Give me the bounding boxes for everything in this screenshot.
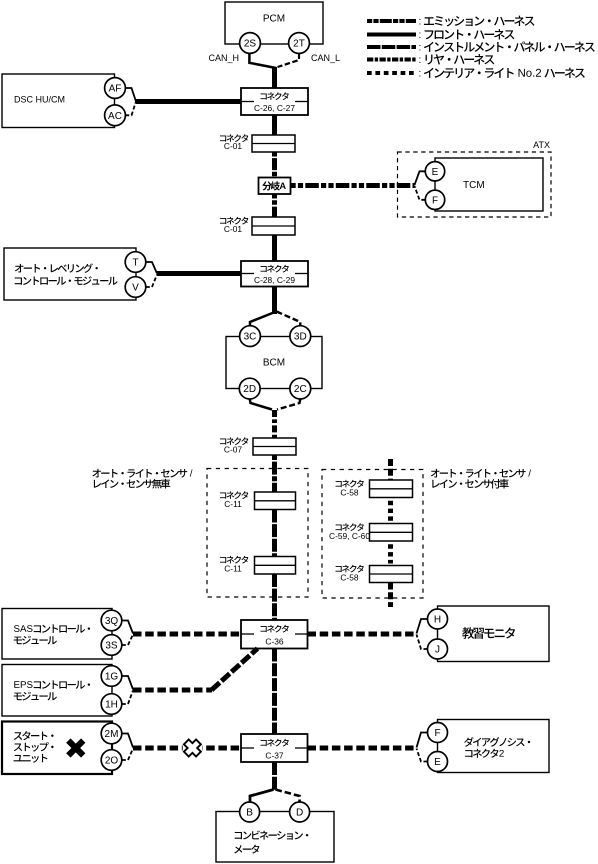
terminal T (125, 252, 146, 273)
combination meter box (216, 812, 334, 863)
auto leveling control module box (4, 248, 136, 300)
terminal 2C (290, 378, 311, 399)
svg-text:J: J (435, 645, 440, 656)
terminal B (240, 802, 260, 822)
connector C-37 (241, 734, 308, 762)
svg-text::: : (419, 43, 422, 54)
svg-text:DSC HU/CM: DSC HU/CM (14, 95, 65, 105)
terminal 1G (101, 666, 122, 687)
svg-text:C-58: C-58 (340, 487, 358, 497)
wire start-stop to C-37 (dashed) (133, 746, 241, 751)
terminal AC (105, 105, 126, 126)
svg-text:1H: 1H (105, 700, 118, 711)
wire segment below C-58 (dashed) (388, 583, 393, 608)
wire branch A to TCM (dashed) (291, 183, 415, 188)
svg-text:C-59, C-60: C-59, C-60 (329, 531, 370, 541)
svg-text:2D: 2D (243, 384, 256, 395)
wire trunk C-36 to C-37 (dashed) (272, 649, 277, 735)
wire from 2S (CAN_H, solid) (249, 54, 276, 69)
legend swatch: リヤ・ハーネス (367, 58, 416, 62)
legend swatch: エミッション・ハーネス (367, 19, 416, 23)
connector C-59, C-60 (370, 524, 413, 542)
wire from T (solid) (146, 262, 157, 274)
wire trunk C-37 down (dashed) (272, 762, 277, 790)
terminal V (125, 277, 146, 298)
terminal F (425, 190, 444, 209)
wire to B (solid) (250, 790, 274, 803)
svg-text:2O: 2O (105, 756, 119, 767)
svg-text:C-58: C-58 (340, 572, 358, 582)
svg-text:C-37: C-37 (265, 751, 283, 761)
wire trunk C-07 to C-11 (instrument panel harness) (272, 455, 277, 492)
wire C-58 to C-59 (interior light No.2, dotted) (388, 501, 393, 521)
connector C-26, C-27 (241, 88, 308, 115)
wire from AC (dashed) (125, 102, 136, 116)
svg-text:E: E (432, 167, 439, 178)
SAS control module box (2, 609, 112, 660)
training monitor box (438, 606, 550, 662)
wire from V (dashed) (146, 275, 157, 288)
svg-text::: : (419, 30, 422, 41)
svg-text:C-36: C-36 (265, 637, 283, 647)
legend swatch: フロント・ハーネス (367, 33, 416, 37)
connector C-11 lower (255, 557, 296, 575)
dashed enclosure: with auto light / rain sensor (322, 470, 423, 599)
label with-sensor variant (431, 469, 531, 478)
label without-sensor variant (92, 469, 192, 478)
terminal 1H (101, 694, 122, 715)
wire to D (dashed) (276, 790, 300, 803)
wire trunk C-28 to BCM (front harness) (272, 287, 277, 315)
wire trunk C-01 to C-28 (front harness) (272, 235, 277, 261)
wire leveling module to C-28 (front harness) (157, 271, 241, 276)
terminal E (428, 752, 448, 772)
wire from 1G (solid) (122, 676, 133, 690)
wire to 3D (dashed) (277, 312, 301, 327)
svg-text:B: B (246, 808, 253, 819)
wire from 2C (dashed) (277, 399, 300, 410)
BCM box (226, 337, 322, 389)
connector C-01 upper (252, 135, 295, 152)
junction box 分岐A (259, 178, 291, 195)
svg-text:F: F (432, 195, 438, 206)
svg-text:AC: AC (108, 111, 122, 122)
svg-text:F: F (434, 728, 440, 739)
connector C-36 (241, 620, 308, 649)
TCM box (435, 158, 543, 211)
terminal 2S (240, 33, 261, 54)
X mark on wire (cut, outlined) (183, 739, 202, 757)
DSC HU/CM box (2, 74, 115, 128)
dashed enclosure: without auto light / rain sensor (207, 469, 308, 598)
terminal D (290, 802, 310, 822)
connector C-28, C-29 (241, 261, 308, 287)
svg-text:ATX: ATX (533, 140, 550, 150)
svg-text:H: H (434, 615, 441, 626)
wire to F (solid) (417, 733, 428, 748)
svg-text:BCM: BCM (263, 358, 285, 369)
svg-text:3Q: 3Q (105, 616, 119, 627)
start stop unit box (2, 722, 112, 775)
terminal 3S (101, 635, 122, 656)
svg-text:2C: 2C (294, 384, 307, 395)
PCM box (225, 2, 323, 44)
wire EPS to C-36 horizontal (dashed) (133, 688, 212, 693)
wire trunk PCM to connector C-26 (front harness) (272, 67, 277, 88)
terminal J (428, 639, 448, 659)
svg-text:D: D (296, 808, 303, 819)
svg-text:C-01: C-01 (224, 141, 242, 151)
connector C-58 lower (370, 566, 413, 583)
terminal E (425, 162, 444, 181)
wire C-36 to training monitor (dashed) (308, 632, 418, 637)
svg-text::: : (419, 55, 422, 66)
wire from 2D (solid) (250, 399, 272, 410)
svg-text:T: T (132, 258, 138, 269)
svg-text:V: V (132, 283, 139, 294)
svg-text:E: E (434, 757, 441, 768)
svg-text:AF: AF (109, 84, 122, 95)
svg-text:C-26, C-27: C-26, C-27 (254, 103, 295, 113)
svg-text:CAN_L: CAN_L (311, 53, 340, 63)
wire from 2T (CAN_L, dashed) (278, 54, 300, 68)
terminal AF (105, 78, 126, 99)
ATX dashed enclosure (398, 152, 552, 217)
bold X mark (not connected) (61, 733, 91, 763)
terminal F (428, 723, 448, 743)
svg-text:TCM: TCM (463, 180, 485, 191)
svg-text:CAN_H: CAN_H (208, 53, 239, 63)
legend swatch: インストルメント・パネル・ハーネス (367, 45, 416, 49)
wire EPS diagonal up to C-36 (dashed) (212, 649, 258, 691)
svg-text:C-01: C-01 (224, 224, 242, 234)
wire segment above C-58 (dashed) (388, 459, 393, 480)
svg-text::: : (419, 69, 422, 80)
legend swatch: インテリア・ライト No.2 ハーネス (367, 71, 416, 75)
wire from 2O (dashed) (122, 749, 133, 761)
connector C-58 upper (370, 480, 413, 498)
terminal H (428, 609, 448, 629)
connector C-01 lower (252, 217, 295, 235)
terminal 3D (290, 326, 311, 347)
wire trunk C-26 to C-01 (front harness) (272, 115, 277, 135)
wire to H (solid) (417, 619, 428, 634)
wire to E (solid) (415, 171, 426, 185)
terminal 2D (239, 378, 260, 399)
wire trunk C-11 to C-36 (instrument panel harness) (272, 574, 277, 620)
svg-text:2M: 2M (105, 729, 119, 740)
wire from 3S (dashed) (122, 635, 133, 646)
wire trunk BCM to C-07 (dashed) (272, 410, 277, 438)
terminal 2O (101, 750, 122, 771)
wire from 2M (solid) (122, 734, 133, 748)
svg-text:2T: 2T (293, 39, 305, 50)
wire trunk branch A to C-01 (emission harness, dashed) (272, 194, 277, 217)
svg-text:C-28, C-29: C-28, C-29 (254, 275, 295, 285)
wire C-37 to diagnosis connector 2 (dashed) (308, 746, 418, 751)
svg-text:C-07: C-07 (224, 445, 242, 455)
connector C-11 upper (255, 492, 296, 510)
terminal 2M (101, 723, 122, 744)
wire trunk C-11 to C-11 (instrument panel harness) (272, 510, 277, 557)
terminal 2T (289, 33, 310, 54)
wire trunk C-01 to branch A (emission harness, dashed) (272, 152, 277, 178)
wire C-59 to C-58 (interior light No.2, dotted) (388, 544, 393, 563)
connector C-07 (253, 438, 296, 455)
svg-text:PCM: PCM (263, 14, 285, 25)
svg-text:3D: 3D (294, 332, 307, 343)
wire DSC to connector C-26 (front harness) (136, 99, 241, 104)
wire SAS to C-36 (dashed) (133, 632, 241, 637)
svg-text:3C: 3C (244, 332, 257, 343)
wire to F (dashed) (415, 186, 426, 200)
wire to E (dashed) (417, 749, 428, 762)
diagnosis connector 2 box (438, 720, 550, 773)
wire from 3Q (solid) (122, 621, 133, 634)
terminal 3Q (101, 610, 122, 631)
svg-text:C-11: C-11 (224, 499, 242, 509)
wire from 1H (dashed) (122, 691, 133, 705)
wire to 3C (solid) (250, 313, 273, 326)
wire from AF (solid) (126, 88, 137, 102)
EPS control module box (2, 665, 112, 717)
svg-text:C-11: C-11 (224, 564, 242, 574)
svg-text:2S: 2S (244, 39, 257, 50)
wire to J (dashed) (417, 635, 428, 650)
terminal 3C (240, 326, 261, 347)
svg-text:3S: 3S (105, 641, 118, 652)
svg-text:1G: 1G (105, 672, 119, 683)
svg-text::: : (419, 17, 422, 28)
